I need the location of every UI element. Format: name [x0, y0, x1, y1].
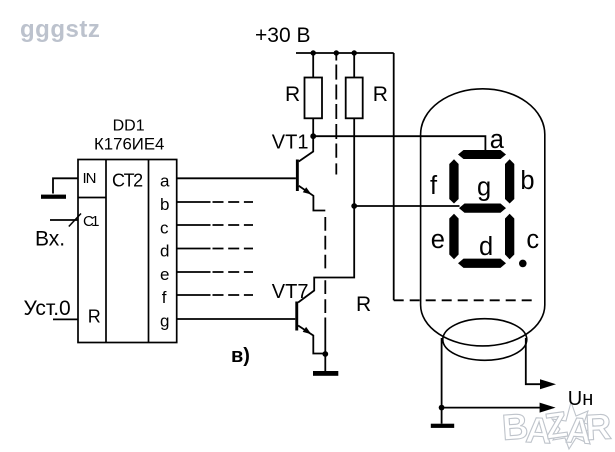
svg-text:b: b [160, 195, 169, 214]
svg-text:c: c [160, 218, 169, 237]
svg-text:R: R [285, 83, 300, 106]
svg-text:g: g [477, 174, 491, 202]
svg-text:R: R [584, 406, 612, 448]
svg-text:VT7: VT7 [272, 281, 309, 303]
svg-text:g: g [160, 312, 169, 331]
svg-text:a: a [490, 126, 505, 154]
svg-text:VT1: VT1 [272, 132, 309, 154]
svg-text:К176ИЕ4: К176ИЕ4 [94, 135, 164, 154]
svg-text:R: R [88, 307, 101, 327]
svg-text:b: b [520, 167, 534, 195]
svg-text:Вх.: Вх. [35, 228, 65, 251]
svg-text:+30 В: +30 В [255, 24, 310, 47]
svg-text:Уст.0: Уст.0 [24, 297, 71, 320]
svg-text:DD1: DD1 [113, 117, 145, 134]
svg-text:f: f [162, 288, 167, 307]
svg-text:gggstz: gggstz [20, 16, 100, 43]
svg-text:a: a [160, 171, 170, 190]
svg-text:e: e [160, 265, 169, 284]
svg-text:d: d [479, 233, 493, 261]
svg-text:c: c [526, 226, 539, 254]
svg-text:CT2: CT2 [112, 170, 143, 190]
svg-text:в): в) [231, 345, 250, 367]
svg-text:C1: C1 [83, 213, 100, 230]
svg-text:e: e [431, 226, 445, 254]
svg-text:R: R [373, 83, 388, 106]
svg-text:Uн: Uн [568, 388, 594, 410]
svg-text:d: d [160, 242, 169, 261]
svg-text:IN: IN [83, 170, 97, 187]
svg-text:R: R [356, 293, 371, 316]
svg-text:f: f [430, 172, 438, 200]
